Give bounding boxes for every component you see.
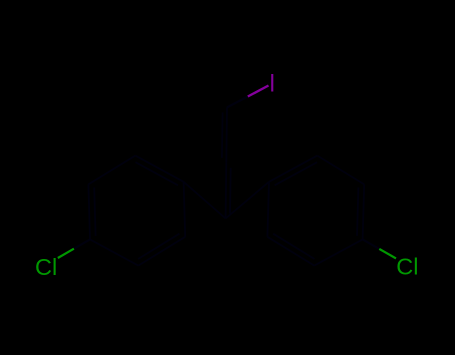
allene double bond C2=C3 main line xyxy=(225,107,228,162)
bond C4L-Cl left half (Cl side, green) xyxy=(58,249,74,258)
bond C1L(ipso)-C2L (left ring edge) xyxy=(184,182,186,237)
double bond inner line C6L-C1L(ipso) (left ring) xyxy=(136,162,179,185)
allene double bond C1=C2 main line xyxy=(225,163,228,219)
atom label I (iodine, drawn as bar) xyxy=(271,74,273,92)
bond C2L-C3L (left ring edge) xyxy=(138,237,185,266)
bond C4R-Cl right half (Cl side, green) xyxy=(379,249,396,259)
double bond inner line C4L(Cl)-C5L (left ring) xyxy=(94,188,95,236)
bond C4L-Cl left half (carbon side) xyxy=(74,239,90,248)
bond C3R-C4R(Cl) (right ring edge) xyxy=(314,239,362,265)
double bond inner line C2L-C3L (left ring) xyxy=(138,234,179,259)
bond C4L(Cl)-C5L (left ring edge) xyxy=(88,184,90,239)
svg-text:Cl: Cl xyxy=(396,254,418,280)
allene double bond C2=C3 second line xyxy=(221,112,224,157)
allene double bond C1=C2 second line xyxy=(229,168,232,214)
bond C1(central)-C1R(ipso right) xyxy=(226,182,269,219)
bond C3-I half (iodine side, purple) xyxy=(248,86,269,97)
bond C3L-C4L(Cl) (left ring edge) xyxy=(90,239,138,265)
bond C5L-C6L (left ring edge) xyxy=(88,156,135,185)
bond C4R(Cl)-C5R (right ring edge) xyxy=(363,184,365,239)
double bond inner line C6R-C1R(ipso) (right ring) xyxy=(275,162,318,185)
double bond inner line C2R-C3R (right ring) xyxy=(273,234,314,259)
bond C5R-C6R (right ring edge) xyxy=(317,156,364,185)
bond C6L-C1L(ipso) (left ring edge) xyxy=(135,156,183,182)
bond C3-I half (carbon side) xyxy=(227,97,248,108)
double bond inner line C4R(Cl)-C5R (right ring) xyxy=(357,188,358,236)
bond C1R(ipso)-C2R (right ring edge) xyxy=(267,182,269,237)
bond C2R-C3R (right ring edge) xyxy=(267,237,314,266)
bond C4R-Cl right half (carbon side) xyxy=(363,239,380,249)
bond C1(central)-C1L(ipso left) xyxy=(184,182,226,219)
bond C6R-C1R(ipso) (right ring edge) xyxy=(269,156,317,182)
svg-text:Cl: Cl xyxy=(35,254,57,280)
